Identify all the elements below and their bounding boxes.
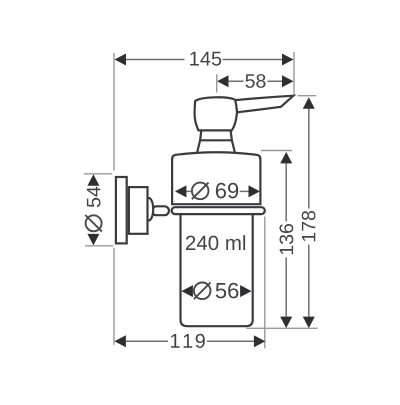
dimension 119 line — [126, 340, 254, 342]
bottle body — [181, 209, 253, 326]
dimension d54 group — [85, 187, 102, 232]
dimension 58 arrows — [217, 75, 294, 87]
volume text 240 ml — [186, 235, 245, 250]
dimension 178 text — [302, 211, 316, 241]
pump head — [195, 97, 237, 130]
extension line 136 top — [261, 150, 292, 152]
dimension d69 phi symbol — [192, 183, 209, 200]
dimension d56 arrows — [181, 285, 251, 297]
dimension 145 line — [126, 59, 282, 61]
dimension 145 arrows — [115, 54, 294, 66]
dimension 58 line — [228, 80, 282, 82]
extension line pump center — [216, 74, 218, 92]
dimension d56 text — [216, 283, 239, 299]
wall plate — [116, 177, 127, 243]
mount disc — [144, 198, 153, 220]
extension line left bottom — [113, 248, 115, 345]
dimension d69 arrows — [175, 185, 260, 197]
mount body — [129, 187, 148, 234]
extension line right top — [293, 52, 295, 95]
holder ring — [172, 207, 265, 214]
extension line d54 bottom — [85, 245, 113, 247]
dimension 136 line — [285, 163, 287, 317]
dimension 145 text — [190, 52, 221, 66]
dimension d69 line — [186, 190, 248, 192]
bottle shoulder — [172, 152, 260, 204]
dimension 58 text — [245, 74, 265, 88]
extension line bottom — [246, 327, 317, 329]
extension line left top — [113, 53, 115, 171]
dimension 119 text — [171, 334, 205, 348]
pump collar — [197, 131, 234, 152]
dimension 119 arrows — [114, 335, 265, 347]
extension line ring right — [264, 217, 266, 349]
extension line 178 top — [298, 95, 317, 97]
extension line d54 top — [84, 173, 112, 175]
dimension d56 phi symbol — [194, 283, 211, 300]
dimension 178 arrows — [303, 97, 315, 328]
pump spout — [235, 96, 293, 113]
dimension 178 line — [308, 109, 310, 317]
dimension 136 arrows — [280, 152, 292, 328]
dimension d54 arrows — [87, 174, 99, 245]
dimension 136 text — [280, 224, 294, 254]
holder stem — [152, 206, 169, 215]
dimension d69 text — [216, 183, 238, 199]
